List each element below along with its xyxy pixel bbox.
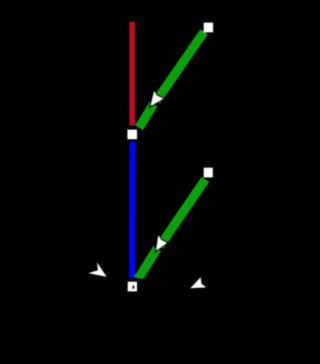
node: right white square (star, lower frame) [204, 168, 213, 178]
node: bottom white square (moving observer) [128, 282, 137, 292]
arrowhead: bottom-left white dart (motion arrow) [88, 262, 106, 277]
arrowhead on green ray 1 (white fill) [151, 92, 163, 106]
arrowhead: bottom-right white dart (motion arrow) [190, 277, 206, 288]
arrowhead on green ray 2 (white fill) [156, 236, 166, 251]
wire: green light ray 1 lower segment (after kink) [139, 104, 153, 128]
node: top-right white square (star) [204, 23, 213, 33]
node: middle white square (observer, upper frame) [127, 130, 137, 140]
wire: green light ray 1 upper segment [156, 32, 204, 101]
wire: green light ray 2 upper segment [160, 179, 206, 246]
arrowhead on green ray 1 (black outline backing) [151, 92, 163, 106]
pupil: small black mark inside bottom square [132, 285, 134, 289]
arrowhead on green ray 2 (black outline backing) [156, 236, 166, 251]
wire: blue vertical segment (lower frame) [129, 142, 136, 279]
wire: red vertical segment (star true direction, upper frame) [129, 22, 135, 126]
wire: green light ray 2 lower segment (after kink, clipped flat at bottom) [138, 249, 157, 279]
